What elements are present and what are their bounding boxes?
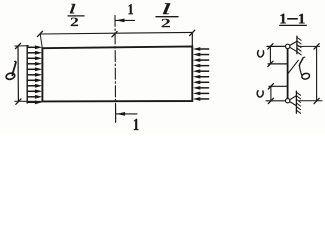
label l of left fraction — [70, 4, 75, 13]
c dimension line bottom — [270, 86, 272, 101]
leader line for b label — [288, 60, 298, 73]
label 1 top section — [129, 4, 134, 14]
fraction bar l/2 left — [68, 15, 84, 17]
triangle top support — [290, 42, 297, 52]
tick top of overall dimension — [314, 44, 319, 49]
head of bottom section arrow — [116, 112, 125, 116]
inner stub above bottom c — [269, 85, 288, 87]
hatching bottom support — [297, 92, 301, 113]
dimension line b left — [17, 46, 19, 102]
extension line b bottom — [15, 100, 42, 102]
section arrow heads — [116, 19, 126, 116]
distributed load arrows right side — [193, 47, 209, 101]
label 2 of left fraction — [71, 18, 78, 27]
tick left end of l dimension — [37, 31, 42, 36]
load tail line left — [26, 46, 28, 103]
inner stub below top c — [268, 63, 288, 65]
section line 1-1 (dash-dot) — [114, 15, 117, 122]
tick bottom of b dimension — [16, 99, 21, 104]
label b main view (drawn) — [5, 61, 16, 80]
label b section view (drawn) — [299, 57, 310, 80]
plate outline (main view) — [42, 46, 192, 101]
tick bottom of overall dimension — [314, 98, 319, 103]
head of top section arrow — [116, 19, 125, 23]
section arrow bottom — [116, 113, 137, 115]
bottom edge line — [266, 100, 285, 102]
wall line top support — [296, 36, 298, 54]
label c bottom (drawn as rotated open arc) — [257, 91, 263, 97]
pin circle top support — [286, 44, 290, 48]
extension line right above plate — [191, 33, 193, 46]
wall line bottom support — [295, 91, 297, 113]
title dash — [287, 18, 298, 20]
tick top of c top dimension — [268, 44, 273, 49]
label 2 of right fraction — [162, 19, 171, 28]
tick bottom of c bottom dimension — [268, 98, 273, 103]
pin circle bottom support — [286, 99, 290, 103]
hatching top support — [297, 37, 301, 54]
title digit 1 left — [280, 14, 286, 24]
label l of right fraction — [163, 3, 170, 14]
fraction bar l/2 right — [156, 16, 178, 18]
tick right end of l dimension — [190, 30, 195, 35]
distributed load arrows left side — [27, 45, 42, 104]
dimension line l top — [40, 32, 192, 34]
underline of title — [279, 24, 307, 26]
title digit 1 right — [299, 14, 305, 24]
extension line top to overall dimension — [298, 45, 319, 47]
top edge line — [267, 45, 285, 47]
tick top of c bottom dimension — [268, 84, 273, 89]
label c top (drawn as rotated open arc) — [258, 51, 264, 57]
tick middle of l dimension — [112, 32, 117, 37]
tick bottom of c top dimension — [268, 61, 273, 66]
overall dimension line right — [316, 46, 318, 101]
section arrow top — [115, 19, 134, 21]
extension line b top — [15, 45, 29, 47]
tick top of b dimension — [15, 43, 20, 48]
triangle bottom support — [290, 96, 296, 106]
plate cross-section line — [287, 46, 289, 100]
extension line bottom to overall dimension — [299, 100, 322, 102]
label 1 bottom section — [134, 119, 139, 130]
section line lower end segment — [115, 105, 117, 122]
extension line left above plate — [40, 34, 42, 48]
c dimension line top — [269, 46, 271, 64]
